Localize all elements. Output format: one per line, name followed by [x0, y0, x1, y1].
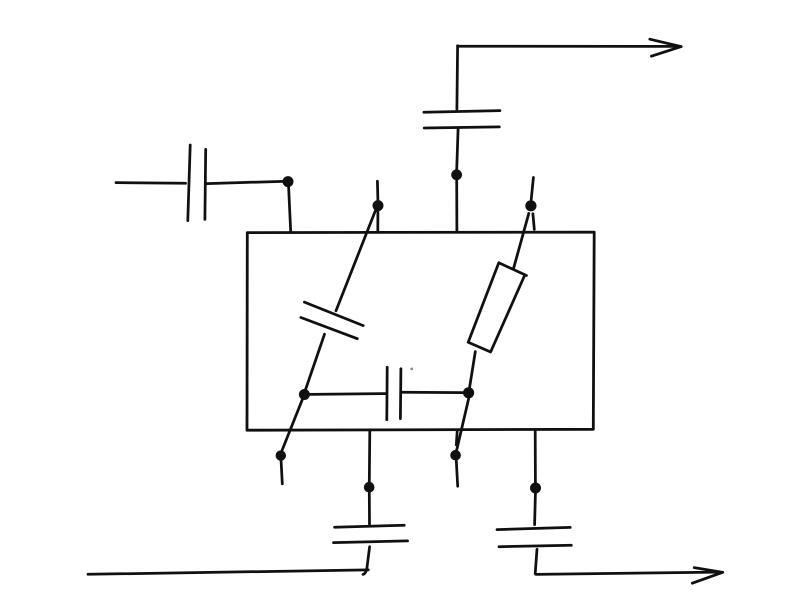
- speck near C4: [410, 368, 413, 371]
- wire: stub below node C: [281, 461, 282, 484]
- capacitor C5 bottom plate: [334, 541, 408, 543]
- wire: bottom-right output rail: [536, 572, 719, 574]
- capacitor C1 top plate: [424, 111, 500, 113]
- capacitor C6 top plate: [497, 527, 570, 529]
- wire: bottom-left rail: [88, 570, 368, 574]
- wire: node D to capacitor C5: [368, 492, 371, 524]
- wire: node P1 diagonal to capacitor C3: [336, 211, 375, 311]
- wire: C4 to node B: [402, 391, 463, 394]
- node P2 junction dot: [525, 200, 536, 211]
- wire: node A diagonal down to node C: [281, 400, 302, 453]
- output arrowhead bottom right: [692, 568, 722, 584]
- wire: junction down to box U1 top edge: [289, 187, 291, 232]
- wire: C2 to junction: [207, 181, 288, 183]
- node E junction dot: [450, 450, 461, 461]
- node F junction dot: [530, 483, 541, 494]
- wire: node P2 diagonal to resistor R1 top: [514, 213, 529, 268]
- wire: stub from box bottom edge to node E: [455, 431, 459, 445]
- capacitor C2 left plate: [188, 145, 190, 221]
- node D junction dot: [364, 482, 375, 493]
- wire: node B diagonal down to node E: [456, 398, 468, 451]
- junction dot on C2 branch: [283, 176, 294, 187]
- node P1 junction dot: [373, 200, 384, 211]
- junction dot on C1 branch: [451, 169, 462, 180]
- wire: C1 bottom plate to junction: [457, 129, 458, 170]
- wire: left input lead: [116, 181, 186, 184]
- capacitor C3 bottom plate (tilted): [301, 318, 357, 339]
- node B junction dot: [463, 387, 474, 398]
- wire: short stub below node P2: [533, 214, 534, 230]
- wire: stub below node E: [456, 461, 457, 486]
- wire: box bottom to node F: [534, 430, 537, 482]
- wire: top output horizontal line: [458, 45, 679, 48]
- capacitor C4 left plate: [385, 367, 388, 420]
- node A junction dot: [299, 389, 310, 400]
- capacitor C6 bottom plate: [499, 545, 571, 546]
- component box U1: [247, 232, 594, 430]
- wire: box bottom to node D: [368, 430, 371, 482]
- wire: stub above node P2: [531, 178, 533, 200]
- capacitor C1 bottom plate: [424, 127, 499, 128]
- capacitor C4 right plate: [399, 369, 402, 419]
- output arrowhead top right: [650, 39, 681, 56]
- resistor R1 (tilted rectangle): [468, 263, 526, 352]
- wire: C3 to node A: [305, 334, 324, 390]
- wire: node F to capacitor C6: [533, 494, 537, 525]
- wire: stub above node P1: [376, 181, 379, 200]
- wire: node B up to resistor R1: [470, 352, 476, 388]
- capacitor C3 top plate (tilted): [304, 302, 363, 326]
- capacitor C5 top plate: [335, 525, 405, 527]
- wire: vertical from top output corner down to capacitor C1: [456, 46, 459, 110]
- capacitor C2 right plate: [204, 149, 208, 219]
- wire: junction to box U1 top edge: [455, 180, 458, 232]
- wire: C6 down stub to bottom-right rail: [535, 549, 537, 573]
- wire: C5 down hook to bottom-left rail: [363, 547, 370, 575]
- wire: node P1 down to box edge: [376, 211, 379, 232]
- node C junction dot: [276, 450, 286, 460]
- wire: node A to capacitor C4: [310, 392, 386, 396]
